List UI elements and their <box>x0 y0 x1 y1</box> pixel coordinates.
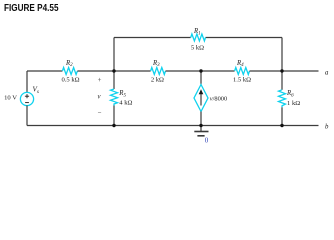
wire: middle rail seg R2-to-R3 <box>77 70 150 72</box>
wire: middle rail seg R4-to-node-a <box>250 70 319 72</box>
wire: top rail left segment <box>114 37 191 39</box>
svg-text:v: v <box>97 94 101 101</box>
svg-text:1 kΩ: 1 kΩ <box>287 100 300 107</box>
svg-text:1.5 kΩ: 1.5 kΩ <box>233 77 251 84</box>
svg-text:FIGURE P4.55: FIGURE P4.55 <box>4 3 59 14</box>
wire: R6 branch lower <box>281 107 283 125</box>
junction dot middle-R5 <box>112 69 115 72</box>
wire: bottom rail <box>27 125 319 127</box>
svg-text:+: + <box>98 77 102 84</box>
resistor R2 zigzag <box>62 68 77 75</box>
dependent current source diamond <box>194 85 208 112</box>
wire: middle rail seg R3-to-R4 <box>166 70 235 72</box>
junction dot bottom-ground <box>199 124 202 127</box>
svg-text:v/8000: v/8000 <box>210 95 227 102</box>
wire: dependent source lower lead <box>200 112 202 126</box>
voltage source Vs circle <box>20 92 33 105</box>
junction dot bottom-R5 <box>112 124 115 127</box>
svg-text:a: a <box>325 69 329 76</box>
wire: R6 branch upper <box>281 71 283 90</box>
svg-text:4 kΩ: 4 kΩ <box>119 100 132 107</box>
resistor R4 zigzag <box>235 68 250 75</box>
wire: R5 branch lower <box>113 106 115 126</box>
resistor R3 zigzag <box>151 68 166 75</box>
junction dot middle-right-vertical <box>280 69 283 72</box>
resistor R5 zigzag vertical <box>111 89 118 106</box>
svg-text:Vs: Vs <box>33 86 39 96</box>
svg-text:b: b <box>325 123 329 130</box>
svg-text:5 kΩ: 5 kΩ <box>191 45 204 52</box>
wire: left vertical above source <box>26 71 28 93</box>
svg-text:R5: R5 <box>118 90 126 98</box>
svg-text:0.5 kΩ: 0.5 kΩ <box>61 77 79 84</box>
ground <box>200 126 202 132</box>
wire: top rail right segment <box>206 37 283 39</box>
wire: right vertical top-rail to middle-rail <box>281 38 283 72</box>
svg-text:10 V: 10 V <box>4 94 17 101</box>
wire: R5 branch upper <box>113 71 115 89</box>
wire: top loop left vertical <box>113 38 115 72</box>
svg-text:2 kΩ: 2 kΩ <box>151 77 164 84</box>
svg-text:0: 0 <box>205 136 209 144</box>
svg-text:R6: R6 <box>286 90 294 98</box>
wire: left vertical below source <box>26 105 28 125</box>
resistor R1 zigzag <box>191 34 206 41</box>
resistor R6 zigzag vertical <box>279 90 286 108</box>
wire: dependent source upper lead <box>200 71 202 85</box>
arrow of dependent source <box>200 93 202 106</box>
wire: middle rail seg source-to-R2 <box>27 70 62 72</box>
svg-text:−: − <box>98 110 102 117</box>
svg-text:R4: R4 <box>236 60 244 68</box>
junction dot middle-dep-source <box>199 69 202 72</box>
svg-text:R3: R3 <box>152 60 160 68</box>
junction dot bottom-R6 <box>280 124 283 127</box>
